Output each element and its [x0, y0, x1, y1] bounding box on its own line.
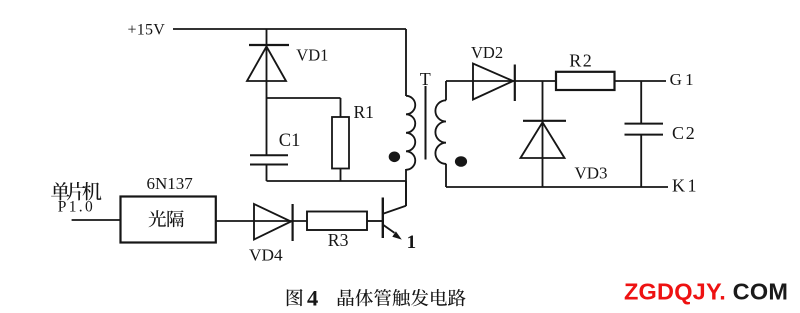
svg-text:C1: C1	[279, 131, 301, 151]
svg-text:T: T	[420, 69, 431, 89]
svg-text:VD3: VD3	[575, 163, 608, 182]
svg-text:G1: G1	[670, 70, 697, 89]
svg-text:R2: R2	[569, 50, 593, 70]
svg-text:VD2: VD2	[471, 43, 503, 62]
svg-text:C2: C2	[672, 123, 697, 143]
svg-text:R1: R1	[354, 102, 374, 122]
svg-text:6N137: 6N137	[147, 174, 194, 193]
svg-text:4: 4	[307, 286, 318, 311]
svg-text:K1: K1	[672, 176, 699, 196]
svg-text:R3: R3	[328, 230, 349, 250]
svg-text:VD4: VD4	[249, 245, 283, 264]
svg-text:ZGDQJY. COM: ZGDQJY. COM	[624, 278, 788, 304]
svg-text:VD1: VD1	[296, 46, 328, 65]
svg-text:P1.0: P1.0	[58, 199, 95, 216]
svg-text:+15V: +15V	[128, 22, 166, 39]
svg-text:1: 1	[407, 232, 417, 253]
